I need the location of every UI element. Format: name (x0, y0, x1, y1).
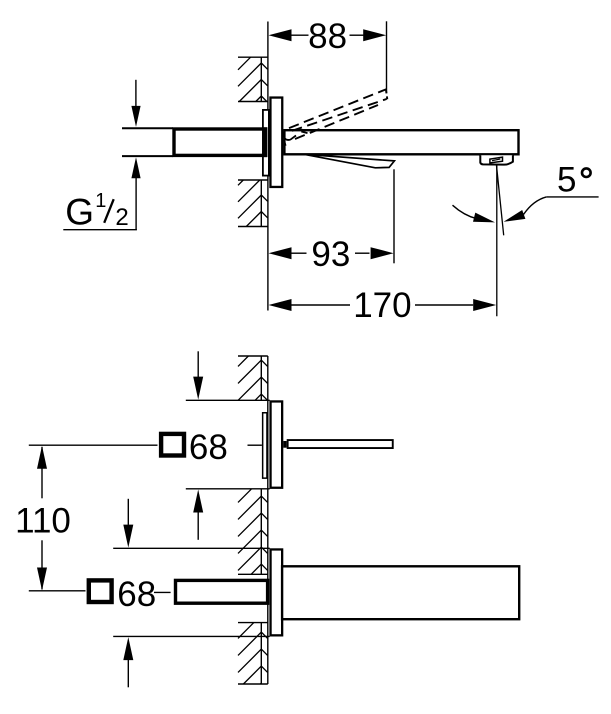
svg-text:68: 68 (117, 575, 156, 614)
pipe height arrows (131, 80, 140, 230)
wall section, top view (238, 22, 268, 311)
lever pivot detail (284, 131, 308, 146)
svg-text:93: 93 (311, 235, 350, 274)
dimension 170 (269, 286, 497, 325)
escutcheon plate, side view (270, 98, 282, 187)
spout escutcheon plate (271, 549, 283, 635)
svg-text:170: 170 (353, 286, 411, 325)
dimension 88 (269, 17, 387, 93)
mounting sleeve (263, 110, 269, 176)
rough-in fitting body (174, 127, 267, 157)
handle lever stem (283, 441, 286, 448)
5 degree slant line (497, 166, 504, 236)
extension line, handle plate top edge (186, 399, 270, 401)
lever handle open, dashed (289, 89, 387, 139)
svg-text:1: 1 (95, 190, 106, 212)
handle lever blade (288, 440, 393, 448)
label square 68, spout (89, 575, 171, 614)
aerator outlet (480, 155, 513, 164)
extension line, spout plate top edge (113, 547, 270, 549)
extension line, handle plate bottom edge (186, 488, 270, 490)
label 5 degrees (546, 161, 598, 200)
spout, plan view (282, 566, 519, 619)
dimension 93 (269, 169, 395, 273)
5 degree angle arc with arrows (453, 197, 547, 223)
handle plate edge arrows (193, 351, 203, 540)
svg-text:2: 2 (115, 204, 128, 231)
svg-text:110: 110 (15, 501, 71, 540)
label square 68, handle (161, 428, 228, 467)
handle escutcheon plate (271, 401, 283, 487)
supply pipe (122, 128, 173, 156)
svg-text:88: 88 (308, 17, 347, 56)
dimension 110 (15, 445, 262, 591)
spout, side view (284, 130, 518, 154)
plumb line at spout outlet (496, 165, 498, 316)
svg-text:G: G (65, 192, 94, 233)
extension line, spout plate bottom edge (113, 635, 270, 637)
label G 1/2 (63, 190, 137, 233)
spout plate edge arrows (123, 499, 133, 688)
spout rough-in body (176, 580, 268, 603)
wall section, bottom view (238, 356, 268, 684)
lever handle closed, solid (304, 154, 394, 168)
handle sleeve, plan view (263, 413, 267, 478)
svg-text:68: 68 (189, 428, 228, 467)
svg-text:5: 5 (557, 161, 576, 200)
